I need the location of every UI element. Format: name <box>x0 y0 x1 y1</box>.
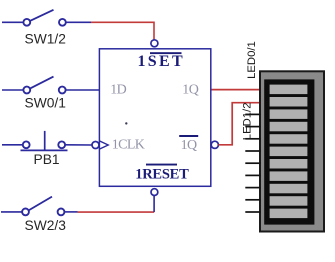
svg-text:PB1: PB1 <box>34 152 60 167</box>
svg-text:LED1/2: LED1/2 <box>242 103 254 141</box>
svg-text:1SET: 1SET <box>138 53 185 70</box>
svg-text:SW1/2: SW1/2 <box>25 32 66 47</box>
svg-text:SW0/1: SW0/1 <box>25 96 66 111</box>
svg-text:1D: 1D <box>110 83 126 98</box>
svg-text:LED0/1: LED0/1 <box>246 41 258 79</box>
svg-text:1CLK: 1CLK <box>112 138 145 153</box>
svg-text:SW2/3: SW2/3 <box>25 218 67 233</box>
svg-text:1Q: 1Q <box>182 83 198 98</box>
svg-text:1RESET: 1RESET <box>135 166 189 182</box>
svg-text:1Q: 1Q <box>181 138 197 153</box>
